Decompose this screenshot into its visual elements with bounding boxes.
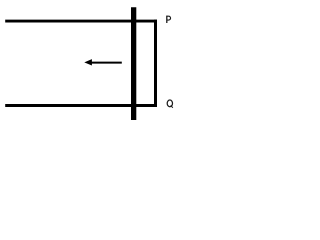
node P label [167, 16, 171, 23]
arrow: motion direction (leftward) [84, 59, 122, 65]
wire: top rail [5, 20, 157, 23]
conducting rod (slider bar across rails) [131, 7, 136, 120]
wire: right vertical segment P-Q [154, 20, 157, 107]
wire: bottom rail [5, 104, 157, 107]
node Q label [167, 100, 173, 108]
